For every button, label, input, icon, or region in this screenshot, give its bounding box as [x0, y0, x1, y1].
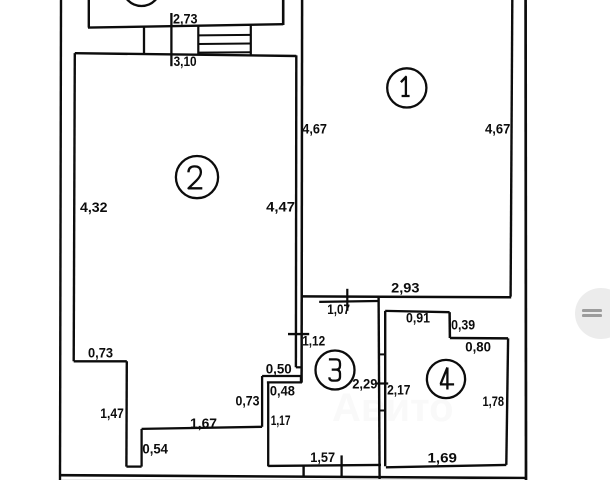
svg-text:1,57: 1,57: [310, 450, 335, 466]
svg-text:1,17: 1,17: [271, 413, 291, 429]
svg-text:1,78: 1,78: [483, 394, 505, 410]
svg-text:2,17: 2,17: [387, 382, 410, 398]
svg-text:4,67: 4,67: [485, 122, 510, 138]
svg-text:4,47: 4,47: [266, 200, 295, 216]
svg-text:0,80: 0,80: [465, 339, 491, 355]
svg-text:0,48: 0,48: [270, 383, 295, 399]
svg-text:1,47: 1,47: [100, 406, 124, 422]
svg-text:0,91: 0,91: [406, 311, 430, 327]
svg-text:1,07: 1,07: [327, 302, 350, 318]
svg-text:2,29: 2,29: [352, 377, 377, 393]
svg-text:0,73: 0,73: [236, 394, 260, 410]
svg-text:0,39: 0,39: [451, 317, 475, 333]
svg-text:4,67: 4,67: [302, 121, 327, 137]
svg-text:1,12: 1,12: [302, 334, 325, 350]
svg-text:1,67: 1,67: [190, 416, 217, 432]
svg-text:0,54: 0,54: [142, 442, 168, 458]
svg-text:0,73: 0,73: [88, 346, 113, 362]
svg-text:2,73: 2,73: [173, 11, 198, 27]
svg-text:4,32: 4,32: [80, 200, 108, 216]
svg-text:1,69: 1,69: [428, 451, 458, 467]
svg-text:2,93: 2,93: [391, 281, 419, 297]
svg-text:0,50: 0,50: [266, 361, 292, 377]
svg-text:3,10: 3,10: [174, 54, 197, 70]
